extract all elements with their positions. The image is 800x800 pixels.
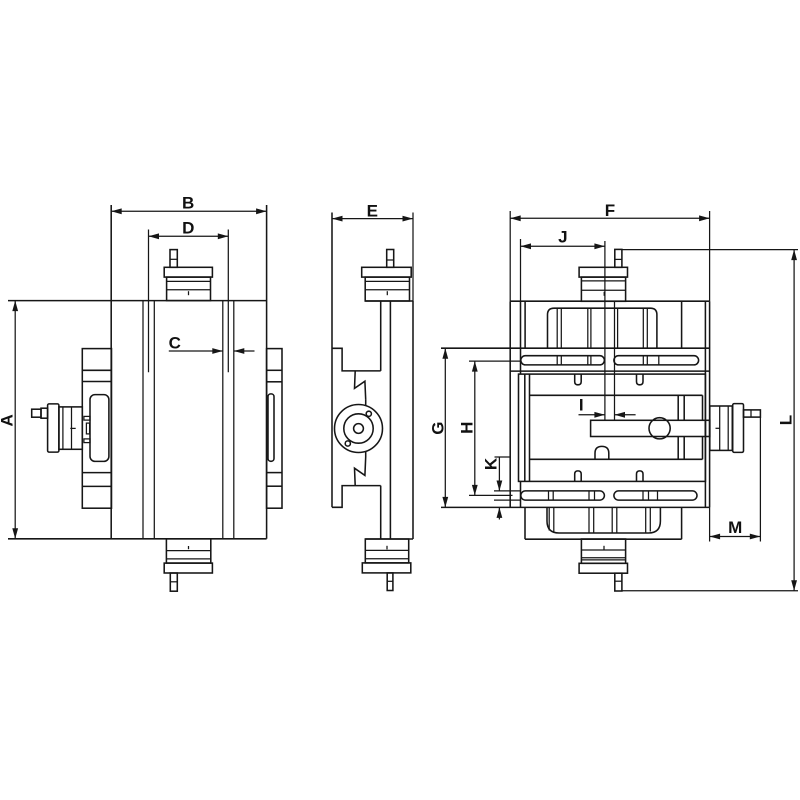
m bottom crank stem xyxy=(387,573,393,591)
bearing outer circle xyxy=(335,405,383,453)
left side block xyxy=(82,349,111,509)
svg-text:K: K xyxy=(482,457,501,470)
bottom T-slot right capsule xyxy=(614,491,697,500)
dimension J line xyxy=(521,245,605,247)
DIMENSIONS xyxy=(0,194,798,591)
svg-text:E: E xyxy=(367,201,378,220)
right crank flange xyxy=(733,404,744,453)
right crank stem xyxy=(744,410,761,417)
upper hanging tab right xyxy=(637,374,644,385)
left crank center tick xyxy=(70,427,75,429)
screw column bottom xyxy=(380,486,382,539)
hidden edge below circle xyxy=(365,451,367,457)
left block tab upper xyxy=(84,416,90,420)
bottom T-slot left capsule with open left end xyxy=(521,491,605,500)
bottom crank body xyxy=(166,539,210,563)
bearing middle circle xyxy=(344,414,373,443)
dimension K lines xyxy=(495,456,511,458)
bolt hole upper right xyxy=(366,411,371,416)
top surface line xyxy=(365,300,413,302)
bottom plate left edge xyxy=(524,507,526,539)
bearing center hole xyxy=(354,424,364,434)
top plate rounded inset xyxy=(548,308,657,348)
dimension I lines xyxy=(579,414,605,416)
top capsule inner ticks xyxy=(556,356,558,365)
bottom break zigzag xyxy=(355,457,366,486)
rv bottom crank flange xyxy=(579,563,627,573)
inner left vertical b xyxy=(529,374,531,481)
top plate grill lines xyxy=(556,308,558,348)
m top crank flange xyxy=(362,267,412,277)
lower rising tab left xyxy=(575,471,582,482)
left plate bottom lip xyxy=(332,486,381,508)
dimension A line xyxy=(14,301,16,539)
saddle inner left edge xyxy=(520,301,522,374)
middle band inner top line xyxy=(530,394,703,396)
rv top crank body xyxy=(581,277,625,301)
top T-slot right capsule xyxy=(614,356,699,365)
m top crank tick xyxy=(386,291,388,295)
m bottom crank tick xyxy=(386,546,388,550)
bottom surface line xyxy=(365,538,413,540)
saddle edges over bar xyxy=(704,420,706,438)
m bottom crank flange xyxy=(362,563,411,573)
top break zigzag xyxy=(355,371,366,400)
svg-text:B: B xyxy=(182,194,194,213)
saddle inner right edge xyxy=(704,301,706,507)
bottom capsule inner ticks xyxy=(548,491,550,500)
middle band inner bottom line xyxy=(530,458,703,460)
RIGHT VIEW xyxy=(441,241,760,591)
bottom crank stem xyxy=(170,573,177,591)
inner right vertical a (split by bar) xyxy=(677,395,679,420)
screw axis line xyxy=(604,241,606,420)
left block tab lower xyxy=(84,439,90,443)
rv top crank tick xyxy=(603,292,605,296)
inner right vertical b (split by bar) xyxy=(683,395,685,420)
rv top crank flange xyxy=(579,267,627,277)
saddle outer left edge xyxy=(509,301,511,507)
bolt hole lower left xyxy=(345,441,350,446)
left crank collar xyxy=(41,408,48,418)
E right extension xyxy=(412,213,414,302)
right slot line outer xyxy=(233,301,235,539)
table top surface line xyxy=(8,300,267,302)
body left edge xyxy=(110,205,112,539)
bottom plate rounded inset xyxy=(547,507,660,533)
nut arch xyxy=(595,446,609,459)
svg-text:H: H xyxy=(457,422,476,434)
m bottom crank body xyxy=(365,539,408,563)
svg-text:G: G xyxy=(429,421,448,434)
middle band outer rect xyxy=(519,374,706,481)
right side block xyxy=(267,349,282,509)
top plate left edge xyxy=(524,301,526,348)
MIDDLE VIEW xyxy=(332,213,413,591)
F extensions xyxy=(509,211,511,301)
screw side line xyxy=(614,301,616,420)
dimension F line xyxy=(510,217,709,219)
left plate top lip xyxy=(332,348,381,371)
dimension E line xyxy=(332,218,413,220)
left block small square xyxy=(86,423,89,434)
svg-text:J: J xyxy=(558,227,567,246)
top plate right edge xyxy=(681,301,683,348)
bottom crank center tick xyxy=(188,546,190,549)
left slot line inner xyxy=(153,301,155,539)
svg-text:A: A xyxy=(0,414,17,426)
dimension G line xyxy=(444,348,446,507)
bottom band lower line (G bottom extension) xyxy=(441,506,710,508)
left block inner rounded pocket xyxy=(90,395,109,462)
dimension M line xyxy=(710,536,761,538)
dimension C lines xyxy=(169,350,223,352)
LEFT VIEW xyxy=(8,205,282,591)
svg-text:F: F xyxy=(605,201,615,220)
left plate left edge (also E extension) xyxy=(331,213,333,508)
m top crank stem xyxy=(387,250,394,268)
m top crank body xyxy=(365,277,409,301)
right plate left edge xyxy=(389,301,391,539)
rv top crank stem xyxy=(615,249,622,267)
right block slot xyxy=(268,394,274,461)
left crank flange xyxy=(48,404,59,452)
upper hanging tab left xyxy=(575,374,582,385)
base bottom surface line xyxy=(8,538,267,540)
top crank flange xyxy=(164,267,212,277)
bottom crank flange xyxy=(164,563,212,573)
left slot line mid (short) xyxy=(148,230,150,373)
J left extension xyxy=(520,239,522,301)
bottom plate bottom line xyxy=(525,538,682,540)
right slot line inner xyxy=(222,301,224,539)
svg-text:L: L xyxy=(776,415,795,425)
dimension H line xyxy=(474,361,476,495)
top T-slot left capsule xyxy=(521,356,605,365)
top crank stem xyxy=(170,250,177,268)
svg-text:I: I xyxy=(579,396,584,415)
svg-text:D: D xyxy=(182,219,194,238)
inner left vertical a xyxy=(524,374,526,481)
bottom capsule K extension top xyxy=(494,490,521,492)
dimension D line xyxy=(149,235,229,237)
inner right vertical c (split by bar) xyxy=(702,395,704,420)
left crank hub sections xyxy=(59,407,82,449)
left slot line outer xyxy=(142,301,144,539)
right crank hub body xyxy=(710,406,733,450)
right crank tick xyxy=(716,427,720,429)
bottom capsule K extension bottom xyxy=(494,499,521,501)
top band upper line (G top extension) xyxy=(441,347,710,349)
left crank handle tip xyxy=(32,409,41,417)
top crank body xyxy=(167,277,211,301)
H extensions xyxy=(469,360,521,362)
rv bottom crank body xyxy=(581,539,625,563)
bottom plate right edge xyxy=(681,507,683,539)
screw collar circle xyxy=(649,418,670,439)
hidden edge above circle xyxy=(365,400,367,406)
screw column top xyxy=(380,301,382,371)
right slot line mid (short) xyxy=(227,230,229,373)
lead screw bar xyxy=(591,420,710,436)
right plate right edge xyxy=(412,301,414,539)
dimension L line xyxy=(793,250,795,591)
saddle outer right edge xyxy=(709,301,711,507)
svg-text:C: C xyxy=(169,334,181,353)
body right edge xyxy=(266,205,268,539)
top surface line xyxy=(510,300,709,302)
top band lower line xyxy=(510,370,709,372)
rv bottom crank tick xyxy=(603,546,605,550)
L extensions xyxy=(622,249,798,251)
bottom plate grill lines xyxy=(548,507,550,530)
lower rising tab right xyxy=(637,471,644,482)
svg-text:M: M xyxy=(728,518,742,537)
M extensions xyxy=(709,507,711,541)
rv bottom crank stem xyxy=(615,573,622,591)
top crank center tick xyxy=(188,291,190,295)
dimension B line xyxy=(111,210,266,212)
